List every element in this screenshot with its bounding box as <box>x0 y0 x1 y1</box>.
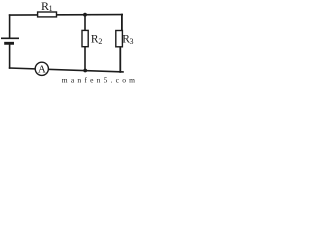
battery long plate <box>1 37 19 39</box>
svg-text:3: 3 <box>130 37 134 46</box>
svg-text:manfen5.com: manfen5.com <box>62 75 135 83</box>
wire bottom <box>10 68 123 72</box>
resistor R2 <box>82 30 88 46</box>
resistor R3 <box>116 31 123 47</box>
ammeter A <box>35 62 48 75</box>
wire R3 branch lower <box>119 47 121 72</box>
svg-text:2: 2 <box>98 37 102 46</box>
wire middle branch lower <box>84 47 86 71</box>
wire left lower <box>9 45 11 68</box>
wire middle branch upper <box>84 15 86 31</box>
svg-text:1: 1 <box>49 4 53 13</box>
resistor R1 <box>38 12 57 17</box>
node junction dot bottom <box>83 69 87 73</box>
svg-text:A: A <box>38 63 46 75</box>
battery short plate <box>4 42 14 45</box>
wire right upper <box>121 15 123 31</box>
wire top <box>10 14 123 17</box>
wire left upper <box>9 15 11 37</box>
node junction dot top <box>83 13 87 17</box>
